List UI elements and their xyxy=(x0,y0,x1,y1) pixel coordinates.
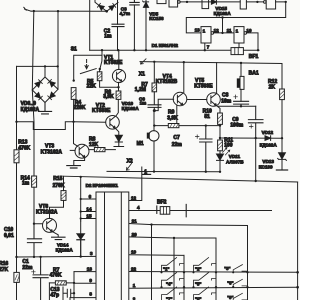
ground below bridge xyxy=(38,103,51,114)
keypad column x=174 xyxy=(173,238,175,300)
key switch "8" cropped xyxy=(194,287,217,300)
svg-text:12K: 12K xyxy=(89,142,99,148)
svg-text:"2": "2" xyxy=(195,267,201,272)
key switch "4" xyxy=(162,273,185,288)
node dot R7 tap on y=62 wire xyxy=(153,61,155,63)
wire VT3 collector up to node xyxy=(74,122,78,147)
wire bus y=50 top main xyxy=(90,49,259,51)
resistor R7 1,2M xyxy=(153,62,155,83)
LED VD11 AL307B xyxy=(219,151,221,154)
diode mark on left arm xyxy=(99,5,104,10)
svg-text:S1: S1 xyxy=(71,47,77,53)
svg-text:14: 14 xyxy=(86,206,92,211)
diode VD15 KD102A xyxy=(211,0,216,4)
node dot C9/descender on VD12 wire xyxy=(255,137,257,139)
svg-text:D1 К561ЛН2: D1 К561ЛН2 xyxy=(152,43,179,48)
svg-text:KT502E: KT502E xyxy=(104,60,123,66)
svg-text:22: 22 xyxy=(131,266,137,271)
right rail x=282 from y=62 wire down xyxy=(281,64,283,90)
resistor R10 51 xyxy=(218,113,223,124)
node dot C7 on rail A xyxy=(205,171,207,173)
node dot S1 contact xyxy=(99,68,101,70)
pin 15 stub xyxy=(81,218,96,220)
switch S1 lever xyxy=(80,69,96,74)
connector X2 pin 1 bar xyxy=(142,173,150,175)
svg-text:1: 1 xyxy=(144,169,147,175)
resistor R11 100 xyxy=(218,140,223,151)
key switch "1" xyxy=(162,258,185,273)
keypad right column x=297.6 from rail B xyxy=(297,182,299,300)
wire VT4 collector riser xyxy=(183,62,185,92)
svg-text:470K: 470K xyxy=(50,272,62,278)
pin 12 wire and riser xyxy=(214,18,234,33)
wire vertical x=45 down to bridge top vertex xyxy=(44,66,46,77)
key switch "2" xyxy=(194,258,217,273)
svg-text:47p: 47p xyxy=(50,292,59,298)
svg-text:27K: 27K xyxy=(0,267,9,273)
svg-text:KT503E: KT503E xyxy=(194,83,213,89)
ground at VT3 emitter xyxy=(67,166,81,168)
svg-text:12: 12 xyxy=(131,196,137,201)
key switch "3" xyxy=(233,265,247,273)
diode bridge VD6..9 diamond xyxy=(32,77,58,103)
top cropped bridge VD1-VD4 right arm with diode xyxy=(107,3,118,12)
svg-text:X2: X2 xyxy=(127,158,133,164)
wire R10 bottom through wire y=125.6 down to VD12 wire xyxy=(219,124,221,140)
svg-text:BF1: BF1 xyxy=(249,54,259,60)
svg-text:9: 9 xyxy=(89,278,92,283)
wire vertical x=89.7 from top edge crossing y=11 down to bus y=50 xyxy=(89,0,91,50)
svg-text:KT3102B: KT3102B xyxy=(156,79,178,85)
svg-text:2K: 2K xyxy=(269,84,276,90)
resistor R5 22K xyxy=(97,72,102,81)
ground at VT6 emitter xyxy=(52,237,65,239)
svg-text:19: 19 xyxy=(131,250,137,255)
node dot (74,293.2) xyxy=(73,292,75,294)
resistor R13 470K on left rail xyxy=(14,150,19,163)
logic gate D1.2 box pins 11/10 xyxy=(234,27,244,43)
wire VT2 emitter down to VD10 xyxy=(115,128,119,135)
node A junction dot x=33.5 on y=11 wire xyxy=(33,10,35,12)
capacitor C6 1m xyxy=(148,92,161,111)
wire VT6 emitter to ground xyxy=(52,231,58,236)
svg-text:КД102А: КД102А xyxy=(56,248,74,253)
transistor VT5 KT503E circle xyxy=(207,93,221,107)
node dot VT1 emitter on bus xyxy=(117,49,119,51)
node dot VT4 tap on y=62 wire xyxy=(183,61,185,63)
pin 22 stub and keypad row 1 wire xyxy=(129,271,298,274)
capacitor C1 22m electrolytic xyxy=(33,257,48,300)
capacitor C9 100m xyxy=(248,106,263,138)
node junction dot (45,66.4) xyxy=(44,65,46,67)
keypad column x=184 from pin19 wire xyxy=(183,255,185,300)
piezo BF1 on bus xyxy=(238,43,240,48)
svg-text:2: 2 xyxy=(133,297,136,300)
capacitor C10 0,01 xyxy=(27,224,41,257)
wire VT6 base from R14 column node xyxy=(34,223,43,225)
diode VD12 KD102A xyxy=(265,136,271,141)
wire oscillator top y=1.9 xyxy=(180,1,286,3)
svg-text:0,01: 0,01 xyxy=(4,233,14,239)
svg-text:KT3102A: KT3102A xyxy=(41,150,63,156)
wire VT5 base to VT4 collector xyxy=(187,99,207,101)
wire VT1 collector to R6 xyxy=(118,82,120,91)
node dot on rail B xyxy=(255,180,257,182)
transistor VT2 KT503E circle xyxy=(106,116,120,130)
svg-text:КД102А: КД102А xyxy=(21,107,40,113)
ground bar under VD13 xyxy=(276,169,287,171)
svg-text:КД102А: КД102А xyxy=(122,106,140,111)
pin 1 stub and keypad row 2 wire xyxy=(129,287,298,288)
svg-text:"5": "5" xyxy=(195,281,201,286)
node dot bus on rail B xyxy=(80,176,82,178)
wire VT5 emitter horizontal y=106.3 to C8 and C9 xyxy=(219,105,256,107)
svg-text:КС139: КС139 xyxy=(259,164,273,169)
node dot (74,282.9) xyxy=(73,282,75,284)
svg-text:D2 КР1008ВЖ1: D2 КР1008ВЖ1 xyxy=(86,183,119,188)
node dot (222.5,17.5) xyxy=(221,16,223,18)
capacitor C13 47p in wire y=293.2 xyxy=(63,289,74,297)
IC D2 KR1008VZh1 body xyxy=(96,192,129,300)
capacitor C7 22m xyxy=(200,126,212,172)
svg-text:8: 8 xyxy=(89,291,92,296)
wire C3 bottom lead to bus xyxy=(133,5,135,50)
node dot (220,138) xyxy=(219,137,221,139)
svg-text:13: 13 xyxy=(87,266,93,271)
node dot C8 bottom xyxy=(240,105,242,107)
svg-text:R16: R16 xyxy=(0,261,8,267)
svg-text:3,9K: 3,9K xyxy=(167,115,178,121)
loudspeaker BA1 xyxy=(240,63,242,76)
keypad T2 horizontal to column x=216 xyxy=(174,238,216,300)
svg-text:22m: 22m xyxy=(172,142,183,148)
wire x=49.4 down from R7b wire xyxy=(48,283,50,300)
pin 9 stub xyxy=(74,282,96,284)
plus sign C7 xyxy=(195,135,199,139)
svg-text:"4": "4" xyxy=(166,281,172,286)
wire VT4 emitter down to R9 xyxy=(176,105,178,123)
wire x=63 stub down xyxy=(62,287,64,300)
wire descender from VD12 wire to rail B xyxy=(255,138,257,181)
rail B long supply wire xyxy=(64,176,298,182)
node dot (285.7,1.9) xyxy=(285,1,287,3)
svg-text:АЛ307Б: АЛ307Б xyxy=(226,159,244,164)
resistor R15 270K xyxy=(61,191,66,201)
svg-text:1m: 1m xyxy=(140,101,147,106)
svg-text:10: 10 xyxy=(246,28,252,33)
wire feedback riser x=285.7 and y=17.5 return xyxy=(186,2,285,33)
top cropped bridge VD1-VD4 left arm with diode xyxy=(95,0,107,11)
pin 14 stub xyxy=(81,211,96,213)
wire vertical x=34 from y=11 to bridge left vertex xyxy=(32,11,34,90)
svg-text:220K: 220K xyxy=(74,105,86,111)
svg-text:470K: 470K xyxy=(18,145,30,151)
diode VD14 KD102A on pin-bus column xyxy=(80,221,82,234)
svg-text:BA1: BA1 xyxy=(249,71,259,77)
pin 12 stub (right) and riser to X2 xyxy=(129,167,142,201)
node bridge bottom vertex dot xyxy=(105,10,108,13)
node dot R9 wire at M1 column xyxy=(153,124,155,126)
capacitor C2 plates xyxy=(112,24,124,26)
svg-text:20: 20 xyxy=(132,232,138,237)
wire R14 column x=34 from bridge left vertex down to VT6 base node xyxy=(32,90,34,224)
switch S1 actuation arrow (dashed) xyxy=(85,60,88,69)
node dot on left rail (16.5,121.8) xyxy=(15,121,17,123)
resistor R8 12K xyxy=(89,149,116,151)
svg-text:1m: 1m xyxy=(22,181,30,187)
node dot right rail on VD12 wire xyxy=(281,137,283,139)
pin 20 stub and wire to keypad T2 xyxy=(129,237,174,238)
transistor VT6 KT3102A circle xyxy=(43,218,57,232)
transistor VT4 KT3102B circle xyxy=(173,92,187,106)
wire mid bus y=62 from X1 to right rail corner xyxy=(140,62,282,64)
wire VT5 emitter to R10 and C8 node xyxy=(216,105,220,113)
node dot (187,1.9) xyxy=(186,1,188,3)
wire M1 bottom to rail A xyxy=(153,141,155,172)
node dot VD14 branch (80.7,256.6) xyxy=(80,255,82,257)
capacitor C3 plates (electrolytic 4.7m) xyxy=(130,0,139,5)
left rail wire x=16.5 from y=66 to bottom edge xyxy=(16,66,18,300)
svg-text:"8": "8" xyxy=(195,296,201,300)
svg-text:11: 11 xyxy=(227,28,232,33)
resistor R14 1m xyxy=(32,176,37,187)
svg-text:KT503E: KT503E xyxy=(92,108,111,114)
wire pin-bus x=80.7 from rail B down through pins 6,14,15 xyxy=(80,177,82,221)
node dots on bus y=50 xyxy=(101,49,103,51)
svg-text:7: 7 xyxy=(207,45,210,50)
plus sign C1 xyxy=(32,270,36,274)
key switch "9" cropped xyxy=(233,293,247,300)
wire S1 frame: from R4 node up across and down to fixed contact xyxy=(74,55,102,80)
node dots right column rows xyxy=(296,271,299,274)
key switch "7" cropped xyxy=(162,287,185,300)
motor M1 xyxy=(153,111,155,131)
svg-text:M1: M1 xyxy=(137,141,144,147)
bridge diode mark top-left arm xyxy=(35,82,41,88)
svg-text:21: 21 xyxy=(132,218,138,223)
piezo BF2 xyxy=(156,206,158,213)
svg-text:4,7m: 4,7m xyxy=(120,11,130,16)
svg-text:1: 1 xyxy=(133,283,136,288)
key switch "6" xyxy=(233,279,247,287)
svg-text:15: 15 xyxy=(86,213,92,218)
svg-text:"9": "9" xyxy=(227,295,233,300)
wire VT5 collector riser xyxy=(216,63,218,94)
resistor R12 2K xyxy=(280,89,285,100)
connector X1 symbol xyxy=(141,59,146,64)
pin 10 wire and riser to bus xyxy=(247,33,258,50)
resistor R16 27K on left rail xyxy=(14,272,19,282)
svg-text:22K: 22K xyxy=(87,84,97,90)
svg-text:3,9K: 3,9K xyxy=(103,94,114,100)
pin 8 stub xyxy=(70,298,96,300)
node dot C10 branch (34,256.9) xyxy=(33,256,35,258)
pin 4 stub and long wire y=210.5 through BF2 xyxy=(129,210,272,212)
node dot (118.5,87.2) xyxy=(117,86,119,88)
transistor VT3 KT3102A circle xyxy=(75,144,89,158)
resistor R9 3,9K horizontal in wire y=125.6 xyxy=(154,125,220,127)
wire y=257 net from rail to pin 3 of D2 xyxy=(17,255,97,258)
node dot C7 on wire y=125.6 xyxy=(205,124,207,126)
svg-text:22m: 22m xyxy=(22,265,33,271)
node dot (73.5,121.8) xyxy=(72,121,74,123)
plus sign C9 xyxy=(249,125,253,129)
svg-text:"1": "1" xyxy=(163,267,169,272)
logic gate D1.1 box pins 13/12 xyxy=(201,27,211,43)
pin 21 stub and wire to keypad T1 xyxy=(129,224,152,225)
node dot BA1 tap xyxy=(240,62,242,64)
svg-text:KC156: KC156 xyxy=(149,16,164,21)
wire VT1 emitter riser to bus xyxy=(118,50,120,69)
node dot at (73.7,80.6) xyxy=(73,79,75,81)
svg-text:6: 6 xyxy=(89,194,92,199)
wire S1 riser from bus to top wire xyxy=(101,50,103,55)
connector X2 arrow symbol xyxy=(126,163,131,170)
svg-text:100m: 100m xyxy=(230,122,243,128)
svg-text:4: 4 xyxy=(137,205,140,210)
zener diode VD5 symbol xyxy=(143,0,149,50)
svg-text:1: 1 xyxy=(203,28,206,33)
wire VT2 base from node (73.5,121.8) xyxy=(74,121,106,123)
node dots row2 columns xyxy=(183,286,185,288)
wire vertical x=58 from y=11 to bridge right vertex xyxy=(57,11,59,89)
key switch "5" xyxy=(194,273,217,288)
node dot (34,223.7) xyxy=(33,223,35,225)
node dot T2 corner xyxy=(173,237,175,239)
svg-text:КД102А: КД102А xyxy=(214,11,232,16)
node dot rail (16.5,257) xyxy=(15,256,17,258)
node dot M1 on rail A xyxy=(153,170,155,172)
diode mark on right arm xyxy=(109,5,114,10)
svg-text:3: 3 xyxy=(90,251,93,256)
node dot VD11 on rail A xyxy=(219,171,221,173)
wire top horizontal y=11 from switch to bridge bottom vertex xyxy=(31,10,107,12)
pin 7 wire from gate D1.1 to bus xyxy=(204,43,206,50)
pin 19 stub and wire to keypad column x=184 xyxy=(129,254,184,257)
plus sign C8 xyxy=(234,95,238,99)
svg-text:X1: X1 xyxy=(139,72,145,78)
svg-text:1: 1 xyxy=(236,28,239,33)
bridge diode mark bottom-left arm xyxy=(35,93,41,99)
wire VT4 base jog xyxy=(154,99,173,110)
svg-text:C7: C7 xyxy=(173,135,180,141)
svg-text:BF2: BF2 xyxy=(157,200,167,206)
svg-text:13: 13 xyxy=(195,28,201,33)
zener diode VD13 KC139 xyxy=(281,138,283,153)
svg-text:12: 12 xyxy=(214,28,220,33)
svg-text:VD12: VD12 xyxy=(262,130,274,135)
transistor VT1 KT502E circle xyxy=(112,69,125,82)
node dots row1 columns xyxy=(183,271,185,273)
pin 6 stub xyxy=(81,198,96,200)
node dot R10 on wire y=125.6 xyxy=(219,124,221,126)
wire VT3 base stub xyxy=(70,149,75,151)
svg-text:"7": "7" xyxy=(166,296,172,300)
wire R6 bottom to VT2 collector xyxy=(116,99,119,116)
wire horizontal y=66.4 from left rail corner to bridge column xyxy=(17,65,58,67)
svg-text:"6": "6" xyxy=(227,281,233,286)
node dot T1 corner xyxy=(150,223,152,225)
capacitor C8 10m xyxy=(234,101,249,106)
wire C2 bottom lead to bus xyxy=(117,27,119,51)
wire R4 bottom down to node (73.5,121.8) xyxy=(73,99,75,121)
node dot C1 branch (40.6,256.9) xyxy=(39,256,41,258)
pin 13 stub (left) xyxy=(74,271,96,273)
svg-text:"3": "3" xyxy=(224,266,230,271)
wire VT3 emitter to ground xyxy=(74,157,85,165)
svg-text:VD13: VD13 xyxy=(262,159,274,164)
node blob C6/M1/VT4-base xyxy=(153,109,156,112)
wire C2 top lead x=117.5 from top edge to C2 xyxy=(117,0,119,24)
logic gates D1 top row cropped boxes xyxy=(157,0,166,4)
resistor R7b 470K (bottom) in wire y=282.9 xyxy=(49,282,74,284)
wire R5 bottom to VT1 collector node xyxy=(100,81,119,88)
wire VD12 net y=138 xyxy=(220,137,282,139)
wire left jog y=121.8 from rail to node xyxy=(17,122,74,130)
wire R15 bottom to VT6 collector xyxy=(50,200,64,218)
wire column x=74 pins 13-9-C13 xyxy=(73,272,75,300)
svg-text:10m: 10m xyxy=(221,98,232,104)
resistor R6 3,9K xyxy=(116,91,121,99)
rail A (X2/M1/C7/VD11 net) xyxy=(107,170,220,172)
resistor R4 220K xyxy=(71,88,76,100)
bridge diode mark bottom-right arm xyxy=(50,92,56,98)
svg-text:51: 51 xyxy=(204,114,210,120)
svg-text:KT3102A: KT3102A xyxy=(36,209,58,215)
svg-text:КД102А: КД102А xyxy=(260,143,278,148)
switch S (top-left power switch lever) xyxy=(24,7,31,11)
wire R12 bottom to VD12 node xyxy=(281,100,283,139)
node B junction dot x=58 on y=11 wire xyxy=(57,10,59,12)
keypad T1 horizontal to column x=247.5 xyxy=(152,225,248,300)
svg-text:R15: R15 xyxy=(53,176,62,182)
bridge diode mark top-right arm xyxy=(50,81,56,86)
svg-text:1,2M: 1,2M xyxy=(135,87,146,93)
svg-text:1m: 1m xyxy=(104,33,112,39)
wire R15 top to rail B xyxy=(63,176,65,190)
diode VD10 KD102A xyxy=(115,135,122,141)
node dot (257.4,1.9) xyxy=(256,1,258,3)
keypad left column x=151.5 xyxy=(151,225,153,300)
